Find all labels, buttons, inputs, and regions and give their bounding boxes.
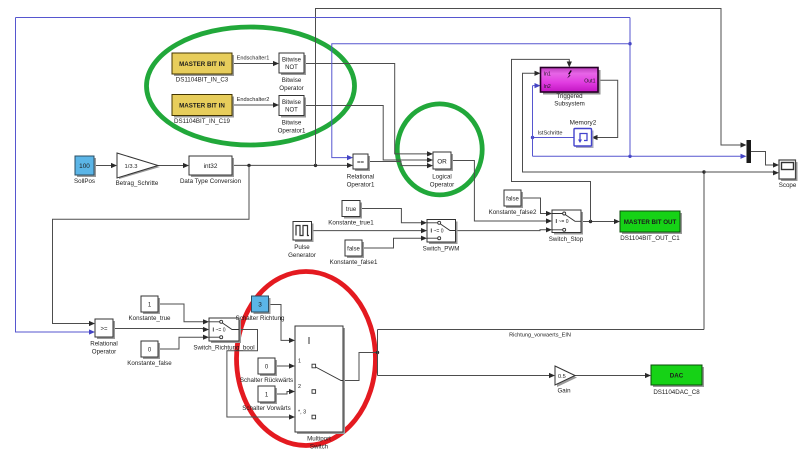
svg-text:Generator: Generator xyxy=(288,252,316,259)
block Switch_Richtung_bool xyxy=(193,318,254,352)
svg-text:MASTER BIT IN: MASTER BIT IN xyxy=(179,103,225,110)
wire Out1 of Triggered Subsystem to Memory2 xyxy=(592,80,618,140)
junction node at scope branch xyxy=(702,170,705,173)
wire Switch_Richtung_bool output to Multiport Switch input 4 xyxy=(227,330,295,420)
green circle annotation around Logical Operator xyxy=(397,104,482,195)
block Konstante_true xyxy=(129,296,172,322)
svg-text:int32: int32 xyxy=(204,163,218,170)
block Multiport Switch xyxy=(295,326,345,450)
svg-text:Pulse: Pulse xyxy=(294,244,310,251)
svg-text:DS1104BIT_OUT_C1: DS1104BIT_OUT_C1 xyxy=(620,235,680,242)
svg-text:Gain: Gain xyxy=(557,388,571,395)
wire Multiport Switch output xyxy=(343,353,378,381)
svg-text:Subsystem: Subsystem xyxy=(554,101,585,108)
wire Data Type Conversion output to Relational Operator1 input 2 xyxy=(232,163,353,168)
green ellipse annotation around MASTER BIT IN / Bitwise operators xyxy=(147,27,355,145)
wire Konstante_true1 to Switch_PWM input 1 xyxy=(360,209,427,226)
wire Pulse Generator to Switch_PWM input 2 xyxy=(312,228,428,233)
svg-text:Endschalter2: Endschalter2 xyxy=(237,97,270,103)
svg-text:NOT: NOT xyxy=(285,108,298,114)
svg-text:Multiport: Multiport xyxy=(307,436,331,443)
wire int32 branch down-left to Relational Operator input 1 xyxy=(53,165,250,326)
svg-text:3: 3 xyxy=(258,302,262,309)
blue junction node at x 630 y 43.7 xyxy=(628,42,631,45)
wire Schalter Rueckwaerts to Multiport Switch input 1 xyxy=(275,363,295,368)
svg-text:Operator: Operator xyxy=(430,182,454,189)
svg-text:Bitwise: Bitwise xyxy=(282,77,302,84)
svg-text:IstSchritte: IstSchritte xyxy=(538,131,563,137)
junction node at x 377.5 y 352.5 xyxy=(376,351,379,354)
svg-text:Konstante_true: Konstante_true xyxy=(129,315,172,322)
wire Switch_Stop output to MASTER BIT OUT xyxy=(581,219,620,224)
svg-text:100: 100 xyxy=(79,163,90,170)
blue wire top horizontal to left edge xyxy=(16,17,631,19)
svg-text:Konstante_true1: Konstante_true1 xyxy=(328,220,374,227)
svg-text:*, 3: *, 3 xyxy=(298,410,306,416)
svg-text:~= 0: ~= 0 xyxy=(216,328,226,334)
svg-text:In1: In1 xyxy=(544,72,551,78)
svg-text:1: 1 xyxy=(298,359,301,365)
svg-text:1/3.3: 1/3.3 xyxy=(125,164,138,170)
svg-text:Bitwise: Bitwise xyxy=(282,58,302,64)
block Schalter Rueckwaerts constant 0 xyxy=(240,358,293,384)
block Triggered Subsystem xyxy=(541,68,601,108)
wire Switch_Stop output branch to Trigger port of Triggered Subsystem xyxy=(512,59,591,221)
svg-text:Schalter Richtung: Schalter Richtung xyxy=(236,315,285,322)
junction node on int32 output branch up xyxy=(314,164,317,167)
wire Betrag_Schritte to Data Type Conversion xyxy=(158,163,189,168)
svg-text:Memory2: Memory2 xyxy=(570,120,597,127)
block Switch_Stop xyxy=(549,210,584,243)
wire Logical Operator output to Switch_Stop input 2 xyxy=(451,161,552,224)
wire Bitwise Operator output to Logical Operator input 1 xyxy=(304,64,433,157)
blue junction node on IstSchritte at x 532.5 xyxy=(531,136,534,139)
svg-text:Richtung_vorwaerts_EIN: Richtung_vorwaerts_EIN xyxy=(509,333,571,339)
block Relational Operator >= xyxy=(90,319,118,356)
wire Relational Operator output to Switch_Richtung_bool input 2 xyxy=(113,327,209,332)
svg-text:Switch_Stop: Switch_Stop xyxy=(549,236,584,243)
blue wire Memory2 output IstSchritte xyxy=(533,137,575,139)
svg-text:Konstante_false2: Konstante_false2 xyxy=(489,209,537,216)
block Bitwise Operator1 xyxy=(278,96,306,135)
svg-text:Scope: Scope xyxy=(779,182,797,189)
svg-text:false: false xyxy=(506,197,519,203)
block MASTER BIT OUT DS1104BIT_OUT_C1 xyxy=(620,211,682,242)
svg-text:Konstante_false: Konstante_false xyxy=(127,360,172,367)
svg-text:Switch: Switch xyxy=(310,444,329,450)
block Data Type Conversion int32 xyxy=(180,156,242,185)
svg-text:DS1104DAC_C8: DS1104DAC_C8 xyxy=(653,389,700,396)
svg-text:true: true xyxy=(346,207,357,213)
block MASTER BIT IN DS1104BIT_IN_C3 xyxy=(172,53,234,84)
blue wire IstSchritte to Mux input 2 xyxy=(533,154,747,159)
wire Endschalter1: DS1104BIT_IN_C3 to Bitwise Operator xyxy=(232,61,279,66)
wire SollPos to Betrag_Schritte xyxy=(94,163,117,168)
svg-text:MASTER BIT OUT: MASTER BIT OUT xyxy=(624,219,677,226)
svg-text:Switch_Richtung_bool: Switch_Richtung_bool xyxy=(193,345,254,352)
block Konstante_true1 xyxy=(328,201,374,227)
svg-text:Bitwise: Bitwise xyxy=(282,120,302,127)
block Konstante_false2 xyxy=(489,190,537,216)
wire Gain output to DAC xyxy=(575,373,651,378)
wire Mux output to Scope input 1 xyxy=(751,152,780,168)
wire Konstante_false1 to Switch_PWM input 3 xyxy=(362,236,427,248)
svg-text:Logical: Logical xyxy=(432,174,452,181)
svg-text:DAC: DAC xyxy=(670,373,684,380)
wire riser x 377.5 between Richtung line and Gain line xyxy=(377,330,379,376)
svg-text:NOT: NOT xyxy=(285,65,298,71)
svg-text:DS1104BIT_IN_C19: DS1104BIT_IN_C19 xyxy=(174,118,231,125)
wire Richtung_vorwaerts_EIN horizontal xyxy=(378,329,705,331)
wire Richtung_vorwaerts_EIN up right side to In1 of Triggered Subsystem xyxy=(523,71,705,330)
svg-text:Switch_PWM: Switch_PWM xyxy=(423,246,460,253)
svg-text:>=: >= xyxy=(100,327,108,333)
block Konstante_false xyxy=(127,341,172,367)
block Bitwise Operator xyxy=(279,53,306,92)
blue wire vertical riser x 630 xyxy=(629,18,631,157)
svg-text:2: 2 xyxy=(298,384,301,390)
blue junction node at x 630 y 156.3 xyxy=(628,155,631,158)
svg-text:false: false xyxy=(347,247,360,253)
wire Konstante_false2 to Switch_Stop input 1 xyxy=(521,198,552,216)
red ellipse annotation around Multiport Switch xyxy=(237,272,376,446)
svg-text:DS1104BIT_IN_C3: DS1104BIT_IN_C3 xyxy=(176,77,229,84)
svg-text:Konstante_false1: Konstante_false1 xyxy=(330,259,378,266)
svg-text:Relational: Relational xyxy=(90,341,118,348)
svg-text:~= 0: ~= 0 xyxy=(434,229,444,235)
blue wire branch to Relational Operator1 input 1 xyxy=(332,44,630,161)
junction node on Switch_Stop output xyxy=(589,220,592,223)
svg-text:Endschalter1: Endschalter1 xyxy=(237,56,270,62)
svg-text:Schalter Vorwärts: Schalter Vorwärts xyxy=(242,405,291,412)
svg-text:Operator1: Operator1 xyxy=(347,182,375,189)
block DAC DS1104DAC_C8 xyxy=(651,365,704,396)
svg-text:Operator: Operator xyxy=(92,349,116,356)
wire Schalter Richtung to Multiport Switch select input xyxy=(269,305,295,344)
svg-text:Data Type Conversion: Data Type Conversion xyxy=(180,178,242,185)
svg-text:Out1: Out1 xyxy=(584,78,595,84)
wire Schalter Vorwaerts to Multiport Switch input 2 xyxy=(275,389,295,394)
svg-text:Betrag_Schritte: Betrag_Schritte xyxy=(116,180,159,187)
block Switch_PWM xyxy=(423,220,460,253)
block Schalter Vorwaerts constant 1 xyxy=(242,386,291,412)
block Memory2 xyxy=(570,120,597,149)
wire branch to Scope input 2 xyxy=(704,170,779,175)
wire Konstante_false to Switch_Richtung_bool input 3 xyxy=(158,335,209,349)
svg-text:~= 0: ~= 0 xyxy=(559,219,569,225)
blue wire IstSchritte up to In2 of Triggered Subsystem xyxy=(533,83,541,156)
svg-text:Triggered: Triggered xyxy=(556,93,583,100)
svg-text:Relational: Relational xyxy=(347,174,375,181)
wire to Gain input xyxy=(378,373,556,378)
block Gain 0.5 xyxy=(555,366,577,395)
svg-text:MASTER BIT IN: MASTER BIT IN xyxy=(179,61,225,68)
wire Relational Operator1 output to Logical Operator input 3 xyxy=(368,162,433,169)
wire Endschalter2: DS1104BIT_IN_C19 to Bitwise Operator1 xyxy=(232,102,279,107)
svg-text:0.5: 0.5 xyxy=(558,374,566,380)
blue wire left edge down to Relational Operator input 2 xyxy=(16,18,96,335)
svg-text:Operator1: Operator1 xyxy=(278,128,306,135)
svg-text:In2: In2 xyxy=(544,84,551,90)
block Relational Operator1 == xyxy=(347,154,375,189)
svg-text:Schalter Rückwärts: Schalter Rückwärts xyxy=(240,377,293,384)
wire Konstante_true to Switch_Richtung_bool input 1 xyxy=(158,304,209,324)
block SollPos constant 100 xyxy=(74,156,96,185)
wire Bitwise Operator1 output to Logical Operator input 2 xyxy=(304,106,433,163)
junction node on int32 output xyxy=(247,164,250,167)
svg-text:==: == xyxy=(357,160,365,166)
svg-text:Bitwise: Bitwise xyxy=(282,100,302,106)
svg-text:SollPos: SollPos xyxy=(74,178,95,185)
svg-text:Operator: Operator xyxy=(279,85,303,92)
svg-text:OR: OR xyxy=(437,159,447,166)
mux Mux xyxy=(747,140,752,163)
block Betrag_Schritte gain 1/3.3 xyxy=(116,153,160,187)
block Logical Operator OR xyxy=(430,152,454,189)
wire int32 branch up to Mux input 1 xyxy=(316,9,747,166)
block Scope xyxy=(779,160,798,189)
block Pulse Generator xyxy=(288,222,316,260)
block Konstante_false1 xyxy=(330,240,378,266)
wire Switch_PWM output to Switch_Stop input 3 xyxy=(456,227,553,232)
block Schalter Richtung constant 3 xyxy=(236,296,285,322)
block MASTER BIT IN DS1104BIT_IN_C19 xyxy=(172,95,234,126)
